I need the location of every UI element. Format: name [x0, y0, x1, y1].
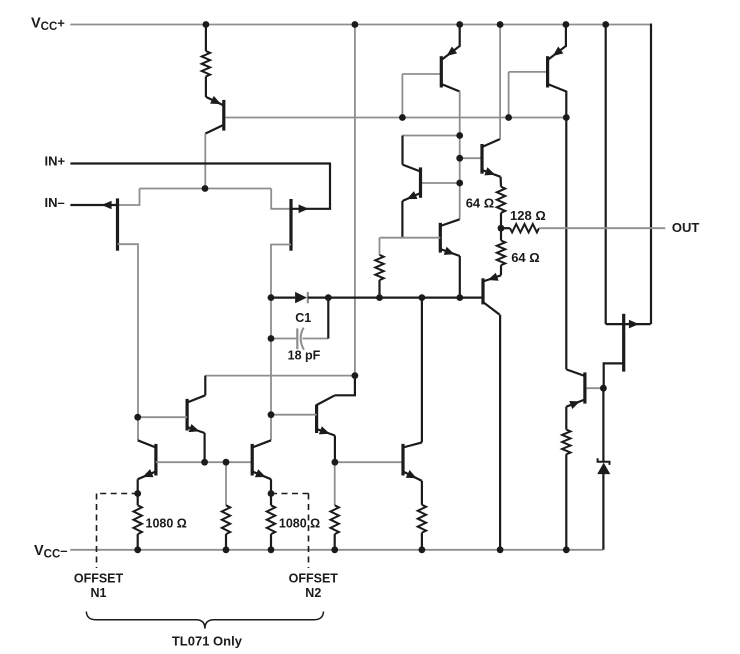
junction Q13 base / zener	[600, 385, 607, 392]
wire zener bottom lead	[602, 474, 604, 550]
svg-text:C1: C1	[295, 311, 311, 325]
wire Q6 base lead	[380, 237, 441, 239]
wire J2 source step	[271, 189, 291, 209]
wire node to R4	[500, 228, 502, 240]
junction base net / Q2 base	[399, 114, 406, 121]
wire R7 to rail	[225, 534, 227, 550]
wire J1 drain	[118, 244, 139, 440]
wire tail net (y=188.5)	[140, 188, 272, 190]
wire Q8 base lead	[138, 416, 187, 418]
wire mirror base net	[156, 461, 252, 463]
svg-text:N2: N2	[305, 586, 321, 600]
resistor R6 (1080 ohm)	[134, 505, 142, 534]
wire Q4 collector riser	[401, 136, 403, 165]
wire IN+ lead	[70, 164, 330, 209]
resistor R2 (64 ohm)	[497, 187, 505, 213]
wire J2 drain	[271, 245, 291, 441]
junction node B / R5	[376, 294, 383, 301]
wire Q2 collector vertical x=460	[459, 91, 461, 220]
resistor R5	[375, 255, 383, 280]
junction VCC- / R11	[563, 546, 570, 553]
wire Q11 emitter drop	[270, 479, 272, 493]
resistor R7	[222, 505, 230, 534]
wire rail drop right (x=606)	[605, 25, 607, 325]
wire J3 source stub	[604, 363, 624, 388]
wire node B left	[271, 297, 295, 299]
diode D1	[295, 292, 308, 303]
junction tail / Q1 collector	[202, 185, 209, 192]
wire offset N1 dashed	[97, 494, 138, 569]
svg-text:OFFSET: OFFSET	[74, 572, 124, 586]
wire zener top lead	[602, 388, 604, 462]
junction C1 / J2 drain	[268, 335, 275, 342]
resistor R11	[562, 430, 570, 455]
wire R5 bottom lead	[378, 280, 380, 298]
wire C1 riser	[327, 298, 329, 339]
junction node B / Q12 collector	[419, 294, 426, 301]
wire R4 bottom lead	[500, 265, 502, 275]
svg-text:TL071 Only: TL071 Only	[172, 633, 243, 648]
transistor Q12	[403, 442, 422, 481]
svg-text:18 pF: 18 pF	[288, 348, 321, 362]
wire Q9 collector jog	[335, 376, 355, 396]
resistor R4 (64 ohm)	[497, 241, 505, 266]
wire Q3 collector vertical x=566	[565, 91, 567, 370]
brace TL071 only	[86, 612, 323, 629]
transistor Q7	[483, 273, 501, 315]
wire Q1 base net (y=117)	[225, 117, 566, 119]
junction x460 / Q4 base	[456, 180, 463, 187]
resistor R10	[418, 505, 426, 533]
wire C1 right lead	[303, 338, 329, 340]
junction base net / Q3 base	[505, 114, 512, 121]
wire R9 to rail	[334, 534, 336, 550]
wire Q9 emitter to R9	[334, 462, 336, 505]
wire Q3 base riser	[508, 72, 510, 118]
transistor Q9	[317, 395, 335, 435]
wire rail drop to node A (x=355)	[354, 25, 356, 376]
resistor R9	[331, 505, 339, 534]
wire J1 source step	[118, 189, 140, 206]
wire R6 to rail	[137, 534, 139, 550]
wire Q8 collector riser	[204, 376, 206, 396]
junction J2 drain / Q9 base	[268, 411, 275, 418]
wire Q4 collector link (y=135.5)	[403, 135, 460, 137]
junction x460 / Q4 collector	[456, 132, 463, 139]
wire R7 drop	[225, 462, 227, 505]
wire VCC+ rail	[70, 24, 651, 26]
wire R6 top lead	[137, 494, 139, 506]
resistor R1	[202, 51, 210, 76]
wire Q7 collector to rail	[499, 315, 501, 550]
transistor Q10	[138, 440, 156, 479]
wire Q12 emitter drop	[421, 481, 423, 505]
transistor Q5	[482, 139, 501, 177]
svg-text:IN–: IN–	[45, 195, 65, 210]
transistor Q2	[441, 25, 459, 92]
junction base net / Q3 collector	[563, 114, 570, 121]
JFET J1	[116, 198, 119, 250]
svg-text:1080 Ω: 1080 Ω	[146, 516, 187, 530]
wire OUT line	[539, 227, 665, 229]
wire Q13 base lead	[587, 387, 604, 389]
wire Q5 base lead	[460, 157, 482, 159]
wire R1 top lead	[205, 25, 207, 52]
wire R11 to rail	[565, 454, 567, 550]
svg-text:OFFSET: OFFSET	[289, 572, 339, 586]
wire IN- lead	[70, 204, 117, 206]
junction VCC- / R6	[134, 546, 141, 553]
junction Q9 emitter / Q12 base	[332, 459, 339, 466]
junction VCC- / R9	[331, 546, 338, 553]
junction VCC- / R7	[223, 546, 230, 553]
wire driver net (y=375.6)	[205, 375, 355, 377]
junction mirror base / Q8 emitter	[201, 459, 208, 466]
wire R8 to rail	[270, 534, 272, 550]
junction top rail / node A drop	[352, 21, 359, 28]
wire Q13 emitter drop	[565, 407, 567, 430]
wire Q5 emitter lead	[500, 177, 503, 187]
wire Q5 collector to rail	[499, 25, 501, 140]
wire R10 to rail	[421, 533, 423, 550]
wire rail end drop (x=651)	[650, 24, 652, 325]
wire node B right	[308, 297, 483, 299]
resistor R8 (1080 ohm)	[267, 505, 275, 534]
junction top rail / Q3 emitter	[563, 21, 570, 28]
junction node B / Q6 emitter	[456, 294, 463, 301]
junction top rail / Q2 emitter	[456, 21, 463, 28]
transistor Q3	[548, 25, 567, 92]
wire R8 top lead	[270, 494, 272, 506]
svg-text:64 Ω: 64 Ω	[511, 250, 540, 265]
transistor Q1	[205, 96, 224, 134]
wire Q12 collector riser	[421, 298, 423, 443]
svg-text:128 Ω: 128 Ω	[510, 208, 546, 223]
junction top rail / Q5 collector	[497, 21, 504, 28]
wire Q6 emitter drop	[459, 256, 461, 298]
junction offset N1	[134, 490, 141, 497]
wire Q1 collector drop	[204, 134, 206, 189]
wire Q3 base lead	[509, 71, 548, 73]
wire Q4 base lead	[422, 182, 460, 184]
wire R1 bottom lead	[205, 76, 207, 97]
svg-text:1080 Ω: 1080 Ω	[279, 516, 320, 530]
svg-text:OUT: OUT	[672, 220, 700, 235]
junction mirror base / R7	[223, 459, 230, 466]
junction VCC- / R8	[268, 546, 275, 553]
capacitor C1	[297, 328, 304, 350]
junction node B / C1 riser	[325, 294, 332, 301]
transistor Q6	[440, 219, 460, 256]
wire C1 left lead	[271, 338, 297, 340]
wire Q9 emitter drop	[334, 436, 336, 463]
wire R5 riser	[379, 238, 381, 255]
wire Q2 base lead	[402, 73, 441, 75]
junction driver net / node A drop	[352, 372, 359, 379]
wire R3 left lead	[501, 227, 510, 229]
wire VCC- rail	[70, 549, 603, 551]
wire Q4 emitter drop	[401, 201, 403, 238]
wire offset N2 dashed	[271, 494, 309, 569]
JFET J3	[606, 314, 651, 372]
svg-text:VCC–: VCC–	[34, 543, 68, 561]
wire R2 to node	[500, 213, 502, 228]
junction VCC- / R10	[419, 546, 426, 553]
junction top rail / R1	[203, 21, 210, 28]
arrow J2 gate (p-channel)	[299, 205, 309, 214]
transistor Q11	[252, 440, 271, 479]
junction x460 / Q5 base	[456, 155, 463, 162]
resistor R3 (128 ohm)	[510, 224, 539, 232]
wire Q12 base lead	[335, 461, 403, 463]
junction offset N2	[268, 490, 275, 497]
svg-text:IN+: IN+	[45, 154, 66, 169]
node output divider	[498, 225, 505, 232]
transistor Q13	[566, 369, 585, 409]
arrow J1 gate (p-channel)	[102, 201, 112, 210]
wire base riser x=402	[401, 74, 403, 118]
wire Q9 base lead	[271, 414, 317, 416]
svg-text:N1: N1	[91, 586, 107, 600]
junction VCC- / Q7 collector	[497, 546, 504, 553]
svg-text:VCC+: VCC+	[31, 15, 65, 33]
diode D2 (zener)	[597, 458, 610, 474]
junction node B / J2 drain	[268, 294, 275, 301]
svg-text:64 Ω: 64 Ω	[466, 196, 495, 211]
JFET J2	[289, 199, 292, 251]
transistor Q8	[187, 395, 205, 433]
wire Q8 emitter drop	[204, 433, 206, 462]
junction top rail / J3 drop	[602, 21, 609, 28]
wire Q10 emitter drop	[137, 479, 139, 493]
transistor Q4	[402, 165, 420, 201]
junction J1 drain / Q8 base	[134, 414, 141, 421]
